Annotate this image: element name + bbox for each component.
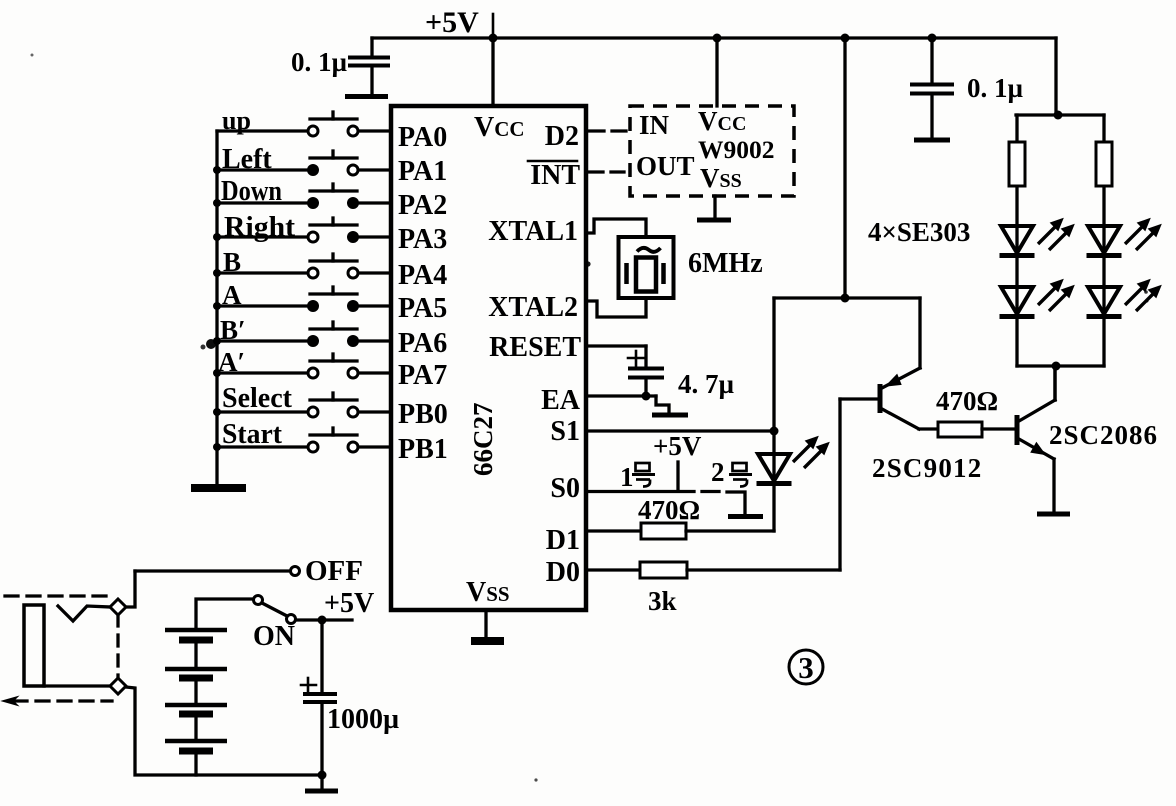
svg-text:Select: Select [222, 383, 293, 414]
svg-text:1000µ: 1000µ [327, 704, 399, 735]
svg-text:D2: D2 [545, 121, 579, 152]
svg-text:2SC9012: 2SC9012 [872, 453, 982, 483]
svg-text:PB1: PB1 [398, 434, 448, 465]
svg-text:2SC2086: 2SC2086 [1049, 420, 1158, 450]
svg-text:S0: S0 [550, 473, 580, 504]
svg-text:PA3: PA3 [398, 224, 447, 255]
svg-text:B: B [223, 247, 241, 277]
svg-text:ON: ON [253, 621, 295, 652]
svg-text:up: up [222, 106, 251, 135]
svg-text:S1: S1 [550, 416, 580, 447]
svg-text:VCC: VCC [474, 112, 525, 143]
svg-text:IN: IN [639, 110, 670, 140]
svg-text:Right: Right [224, 212, 296, 243]
svg-text:3: 3 [798, 650, 814, 685]
svg-text:A: A [222, 280, 242, 310]
svg-text:OFF: OFF [305, 555, 363, 587]
svg-text:470Ω: 470Ω [936, 386, 998, 416]
svg-text:D0: D0 [546, 557, 580, 588]
svg-text:OUT: OUT [636, 151, 695, 181]
svg-text:PA4: PA4 [398, 260, 447, 291]
svg-text:470Ω: 470Ω [638, 495, 700, 525]
svg-text:Down: Down [221, 176, 282, 207]
svg-text:PA5: PA5 [398, 293, 447, 324]
svg-text:4. 7µ: 4. 7µ [678, 369, 735, 399]
svg-text:Start: Start [222, 419, 283, 450]
svg-text:B′: B′ [220, 315, 246, 345]
svg-text:PA1: PA1 [398, 156, 447, 187]
svg-text:PB0: PB0 [398, 399, 448, 430]
svg-text:XTAL1: XTAL1 [488, 216, 578, 247]
svg-text:PA6: PA6 [398, 328, 447, 359]
svg-text:3k: 3k [648, 586, 677, 616]
svg-text:1: 1 [620, 462, 634, 492]
svg-text:D1: D1 [546, 525, 580, 556]
svg-text:PA0: PA0 [398, 122, 447, 153]
svg-text:+5V: +5V [324, 588, 374, 619]
svg-text:66C27: 66C27 [468, 403, 498, 477]
svg-text:INT: INT [530, 160, 580, 191]
svg-text:W9002: W9002 [698, 135, 775, 164]
svg-text:+5V: +5V [425, 6, 479, 39]
svg-text:A′: A′ [218, 347, 245, 377]
svg-text:4×SE303: 4×SE303 [868, 217, 970, 247]
svg-text:EA: EA [541, 385, 581, 416]
svg-text:Left: Left [222, 144, 272, 175]
svg-text:VSS: VSS [466, 577, 510, 608]
svg-text:0. 1µ: 0. 1µ [291, 47, 348, 77]
svg-text:0. 1µ: 0. 1µ [967, 73, 1024, 103]
svg-text:PA7: PA7 [398, 360, 447, 391]
svg-text:+5V: +5V [653, 431, 702, 461]
svg-text:2: 2 [711, 457, 725, 487]
svg-text:RESET: RESET [489, 332, 581, 363]
svg-text:6MHz: 6MHz [688, 248, 763, 279]
svg-text:XTAL2: XTAL2 [488, 292, 578, 323]
svg-text:PA2: PA2 [398, 190, 447, 221]
